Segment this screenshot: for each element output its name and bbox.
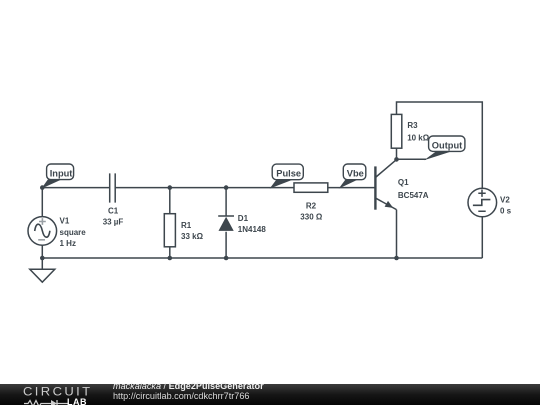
svg-text:Q1: Q1 bbox=[398, 178, 409, 187]
svg-text:R2: R2 bbox=[306, 202, 317, 211]
svg-text:R3: R3 bbox=[407, 121, 418, 130]
svg-text:Pulse: Pulse bbox=[276, 169, 301, 179]
svg-text:330 Ω: 330 Ω bbox=[300, 213, 323, 222]
svg-text:1N4148: 1N4148 bbox=[238, 225, 267, 234]
svg-text:V1: V1 bbox=[60, 217, 70, 226]
svg-text:C1: C1 bbox=[108, 206, 119, 215]
svg-text:Input: Input bbox=[50, 168, 73, 178]
svg-text:33 kΩ: 33 kΩ bbox=[181, 232, 204, 241]
svg-text:D1: D1 bbox=[238, 214, 249, 223]
svg-text:Output: Output bbox=[432, 140, 462, 150]
svg-text:R1: R1 bbox=[181, 221, 192, 230]
svg-text:1 Hz: 1 Hz bbox=[60, 239, 76, 248]
svg-text:33 µF: 33 µF bbox=[103, 217, 124, 226]
svg-text:square: square bbox=[60, 228, 87, 237]
svg-text:0 s: 0 s bbox=[500, 207, 512, 216]
svg-text:10 kΩ: 10 kΩ bbox=[407, 134, 430, 143]
svg-text:BC547A: BC547A bbox=[398, 191, 429, 200]
svg-text:V2: V2 bbox=[500, 196, 510, 205]
svg-text:Vbe: Vbe bbox=[347, 168, 364, 178]
